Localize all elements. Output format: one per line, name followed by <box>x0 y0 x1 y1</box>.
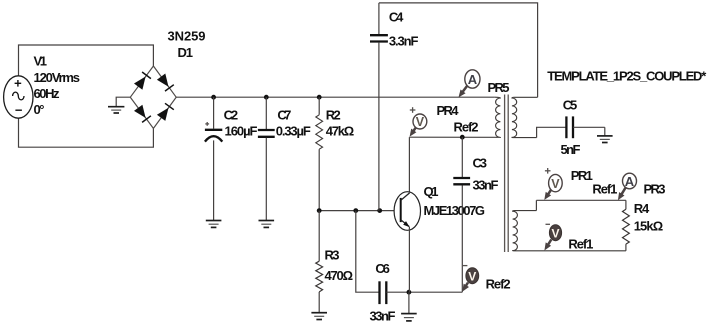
svg-text:60Hz: 60Hz <box>34 86 61 101</box>
svg-text:C4: C4 <box>389 10 404 25</box>
transistor Q1 <box>394 192 420 231</box>
wire V1 top loop <box>19 45 154 147</box>
resistor R4 <box>623 209 630 244</box>
node rail-C2 <box>211 95 216 100</box>
svg-text:A: A <box>625 174 635 189</box>
ground emitter <box>401 314 417 321</box>
svg-text:33nF: 33nF <box>370 309 396 324</box>
svg-text:47kΩ: 47kΩ <box>326 124 355 139</box>
wire C6 left drop <box>356 211 380 293</box>
wire R2 top <box>318 97 320 115</box>
capacitor C5 <box>566 116 573 138</box>
transformer secondary upper coil <box>512 97 538 137</box>
wire C5 ground stem <box>604 127 606 135</box>
node rail-R2 <box>317 95 322 100</box>
node base-C6 <box>353 208 358 213</box>
svg-text:C6: C6 <box>375 261 390 276</box>
svg-text:PR3: PR3 <box>644 182 666 197</box>
wire C3 top <box>461 137 463 177</box>
svg-text:160µF: 160µF <box>225 124 258 139</box>
node emitter-ground <box>407 290 412 295</box>
ground C7 <box>259 221 275 228</box>
svg-text:Ref1: Ref1 <box>568 236 593 251</box>
transformer core <box>505 95 509 253</box>
probe PR3 ammeter <box>618 173 637 200</box>
wire R2 bottom <box>318 149 320 210</box>
wire C2 top <box>213 97 215 129</box>
svg-text:V1: V1 <box>34 54 48 69</box>
svg-text:R4: R4 <box>634 201 650 216</box>
probe PR5 ammeter <box>459 70 481 98</box>
svg-text:TEMPLATE_1P2S_COUPLED*: TEMPLATE_1P2S_COUPLED* <box>547 68 707 83</box>
capacitor C6 <box>380 281 387 304</box>
wire top loop <box>379 3 538 97</box>
wire emitter ground stem <box>408 292 410 313</box>
svg-text:33nF: 33nF <box>473 177 499 192</box>
capacitor C7 <box>258 130 275 137</box>
svg-text:Ref2: Ref2 <box>454 119 479 134</box>
wire R4 top lead <box>625 200 627 209</box>
svg-text:Ref1: Ref1 <box>592 182 617 197</box>
diode D1a top-left <box>134 72 151 90</box>
svg-text:C7: C7 <box>277 108 291 123</box>
node collector-C3 <box>460 135 465 140</box>
node base-C4 <box>377 208 382 213</box>
svg-text:PR1: PR1 <box>571 168 593 183</box>
wire C4 vertical bottom (crosses rail, no dot) <box>378 43 380 211</box>
AC source V1 <box>4 76 33 118</box>
wire C7 top <box>265 97 267 129</box>
wire collector vertical <box>408 137 410 193</box>
transformer secondary lower coil <box>513 211 626 251</box>
ground C5 <box>597 136 613 143</box>
capacitor C4 <box>370 35 388 41</box>
svg-text:Ref2: Ref2 <box>486 276 511 291</box>
node base-R3 <box>317 208 322 213</box>
svg-text:Q1: Q1 <box>424 184 439 199</box>
wire secondary upper bottom step <box>537 127 567 137</box>
svg-text:C3: C3 <box>473 156 488 171</box>
svg-text:V: V <box>468 270 476 284</box>
svg-text:120Vrms: 120Vrms <box>34 70 81 85</box>
svg-text:0°: 0° <box>34 102 45 117</box>
svg-text:PR4: PR4 <box>437 103 460 118</box>
svg-text:C2: C2 <box>224 108 239 123</box>
svg-text:0.33µF: 0.33µF <box>276 124 311 139</box>
diode D1d bottom-right <box>157 103 174 121</box>
wire R4 bottom lead <box>625 244 627 251</box>
resistor R3 <box>316 261 323 292</box>
diode D1b top-right <box>157 74 174 92</box>
wire base rail <box>319 210 400 212</box>
svg-text:R2: R2 <box>326 108 341 123</box>
wire lower step <box>535 200 537 210</box>
wire C4 vertical top <box>378 3 380 34</box>
probe PR1 voltmeter <box>544 168 562 200</box>
diode bridge D1 diamond <box>130 66 176 128</box>
probe Ref1 voltmeter dark <box>544 224 561 250</box>
svg-text:D1: D1 <box>178 45 194 60</box>
wire collector rail <box>409 136 496 138</box>
wire lower top rail <box>536 199 626 201</box>
svg-text:V: V <box>416 115 425 129</box>
svg-text:V: V <box>551 177 560 191</box>
wire C3 bottom <box>461 185 463 292</box>
svg-text:C5: C5 <box>563 97 578 112</box>
ground bridge <box>108 107 124 113</box>
svg-text:470Ω: 470Ω <box>325 268 354 283</box>
wire C7 bottom <box>265 138 267 220</box>
probe Ref2 voltmeter dark <box>462 266 478 292</box>
capacitor C3 <box>453 178 470 184</box>
wire bridge to ground <box>116 97 130 106</box>
wire C6 right <box>386 291 462 293</box>
resistor R2 <box>316 115 323 149</box>
svg-text:MJE13007G: MJE13007G <box>424 203 486 218</box>
node rail-C7 <box>264 95 269 100</box>
svg-text:V: V <box>551 227 559 241</box>
wire C5 right <box>573 126 605 128</box>
wire R3 top <box>318 211 320 262</box>
diode D1c bottom-left <box>134 105 151 123</box>
wire C2 bottom <box>213 140 215 220</box>
svg-text:15kΩ: 15kΩ <box>634 219 664 234</box>
wire R3 bottom <box>318 292 320 313</box>
probe PR4 voltmeter <box>410 107 427 136</box>
svg-text:3N259: 3N259 <box>168 29 206 44</box>
svg-text:R3: R3 <box>325 248 340 263</box>
wire emitter vertical <box>408 227 410 292</box>
ground C2 <box>206 221 222 228</box>
svg-text:5nF: 5nF <box>561 142 581 157</box>
capacitor C2 <box>205 122 222 142</box>
svg-text:3.3nF: 3.3nF <box>389 33 419 48</box>
wire main rail <box>176 96 495 98</box>
svg-text:PR5: PR5 <box>488 80 510 95</box>
svg-text:A: A <box>468 72 478 87</box>
ground R3 <box>311 313 327 320</box>
transformer primary coil <box>495 97 501 137</box>
